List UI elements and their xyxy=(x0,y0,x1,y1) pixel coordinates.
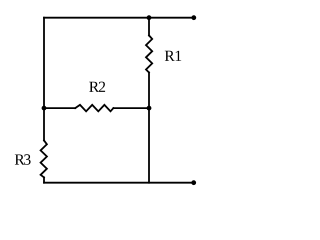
junction node middle left xyxy=(42,106,47,111)
resistor R3 xyxy=(41,140,47,177)
wire top horizontal xyxy=(44,17,194,19)
wire middle left segment xyxy=(44,107,75,109)
junction node top xyxy=(147,15,152,20)
terminal bottom right xyxy=(191,180,196,185)
wire left vertical lower xyxy=(43,177,45,182)
label R1 xyxy=(165,51,181,61)
wire R1 top lead xyxy=(148,18,150,36)
junction node middle right xyxy=(147,106,152,111)
wire R1 bottom lead right vertical xyxy=(148,73,150,183)
wire middle right segment xyxy=(113,107,149,109)
resistor R2 xyxy=(75,105,113,112)
resistor R1 xyxy=(146,35,152,72)
label R3 xyxy=(15,154,31,165)
wire left vertical upper xyxy=(43,18,45,141)
label R2 xyxy=(89,82,105,92)
terminal top right xyxy=(191,15,196,20)
wire bottom horizontal xyxy=(44,182,194,184)
